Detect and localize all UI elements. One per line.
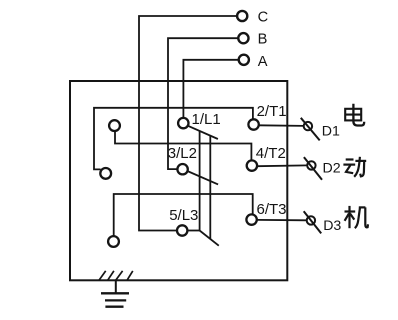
stub wire right of 5/L3: [188, 230, 199, 232]
wire C riser: from terminal C left through corner down to 5/L3: [139, 16, 237, 231]
terminal 3/L2 circle: [177, 164, 187, 174]
wire 6/T3 to D3: [257, 219, 307, 221]
link circle L-top: [109, 120, 120, 131]
vertical link wire V1 (x=199.6): [199, 131, 201, 231]
wire 4/T2 to D2: [258, 164, 308, 167]
vertical link wire V2 (x=210.3): [209, 136, 211, 239]
ground bar 3: [105, 306, 123, 308]
link circle L-mid: [100, 168, 111, 179]
terminal 1/L1 circle: [178, 118, 188, 128]
terminal C circle: [237, 11, 247, 21]
switch blade from 3/L2: [187, 171, 218, 184]
disconnect slash D2: [304, 157, 322, 180]
svg-text:1/L1: 1/L1: [192, 111, 221, 128]
svg-text:A: A: [258, 54, 268, 70]
svg-text:4/T2: 4/T2: [256, 145, 286, 162]
terminal box outline: [70, 81, 287, 280]
connector circle D2: [307, 161, 315, 169]
svg-text:C: C: [258, 9, 269, 25]
wire from left link circle L-top down-right to 4/T2: [115, 131, 251, 160]
connector circle D1: [304, 122, 312, 130]
terminal B circle: [238, 33, 248, 43]
wire B riser: from terminal B left through corner down to 3/L2: [168, 38, 239, 169]
chinese character dian (electric): [345, 104, 364, 126]
chinese character dong (move): [343, 157, 366, 177]
wire A riser: from terminal A left down to 1/L1: [183, 60, 239, 118]
terminal 4/T2 circle: [247, 160, 257, 170]
terminal 2/T1 circle: [248, 119, 258, 129]
terminal 6/T3 circle: [246, 214, 256, 224]
connector circle D3: [307, 216, 315, 224]
ground stem: [115, 280, 117, 293]
wire from 2/T1 up-left-down to left link circle L-mid: [94, 108, 253, 170]
ground bar 1: [101, 292, 129, 294]
terminal A circle: [239, 55, 249, 65]
terminal 5/L3 circle: [177, 225, 187, 235]
wire from left link circle L-bot up-right to 6/T3: [114, 194, 253, 236]
chassis hatch ticks above bottom edge: [99, 271, 133, 280]
svg-text:D3: D3: [323, 218, 341, 234]
svg-text:D2: D2: [323, 161, 341, 177]
ground bar 2: [105, 299, 126, 301]
disconnect slash D3: [304, 211, 322, 233]
wire 2/T1 to D1: [259, 124, 304, 127]
svg-text:3/L2: 3/L2: [168, 145, 197, 162]
switch blade from 1/L1: [188, 126, 218, 139]
link circle L-bot: [108, 236, 119, 247]
svg-text:B: B: [258, 32, 268, 48]
svg-text:2/T1: 2/T1: [257, 103, 287, 120]
switch blade from 5/L3 junction: [200, 231, 219, 246]
svg-text:D1: D1: [322, 123, 340, 139]
disconnect slash D1: [301, 118, 320, 141]
svg-text:5/L3: 5/L3: [169, 207, 198, 224]
svg-text:6/T3: 6/T3: [257, 201, 287, 218]
chinese character ji (machine): [345, 206, 369, 228]
